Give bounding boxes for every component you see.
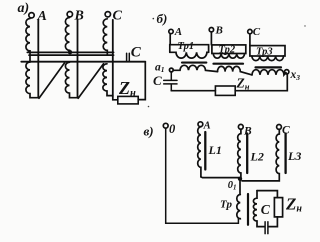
speck right bbox=[304, 25, 305, 26]
zigzag diagonal B to C bbox=[78, 64, 103, 99]
terminal B (part a) bbox=[67, 12, 72, 17]
bus upper 2 bbox=[29, 54, 114, 56]
svg-text:B: B bbox=[215, 25, 223, 37]
svg-text:C: C bbox=[113, 8, 123, 23]
wire Zн to bottom bbox=[269, 217, 278, 227]
wire C bottom to load bbox=[113, 97, 118, 100]
winding C upper coil bbox=[103, 19, 107, 55]
svg-text:0: 0 bbox=[169, 122, 176, 136]
svg-text:C: C bbox=[261, 202, 271, 217]
transformer Tp1 frame bbox=[170, 45, 209, 53]
terminal x3 bbox=[285, 70, 289, 74]
Tp1 core bbox=[182, 62, 206, 64]
zigzag diagonal A to B bbox=[39, 63, 65, 99]
svg-text:C: C bbox=[131, 45, 142, 61]
terminal A (part v) bbox=[198, 122, 203, 127]
svg-text:Zн: Zн bbox=[236, 75, 250, 91]
lead A to Tp1 bbox=[169, 34, 171, 45]
core bar C bbox=[112, 20, 114, 97]
svg-text:C: C bbox=[153, 73, 162, 88]
svg-text:A: A bbox=[203, 120, 211, 131]
bus upper 1 bbox=[27, 51, 113, 53]
svg-text:в): в) bbox=[144, 124, 154, 139]
svg-text:Zн: Zн bbox=[118, 78, 136, 99]
svg-text:C: C bbox=[253, 26, 261, 38]
Tp1 secondary coil bbox=[173, 65, 217, 71]
terminal B (part v) bbox=[238, 124, 243, 129]
winding A lower coil bbox=[26, 62, 38, 98]
node O1 dot bbox=[238, 177, 242, 181]
svg-text:Zн: Zн bbox=[285, 195, 302, 215]
winding B upper coil bbox=[65, 18, 69, 52]
core bar L1 bbox=[204, 132, 206, 170]
svg-text:Тр: Тр bbox=[220, 198, 232, 210]
terminal A (part a) bbox=[29, 13, 34, 18]
winding A upper coil bbox=[26, 19, 30, 63]
Tp3 secondary coil bbox=[252, 70, 286, 75]
Tp3 primary coil bbox=[252, 56, 284, 61]
terminal O bbox=[163, 123, 168, 128]
Tp2 primary coil bbox=[213, 54, 244, 59]
core bar A bbox=[37, 20, 39, 98]
terminal C (part a) bbox=[105, 12, 110, 17]
core bar L2 bbox=[246, 134, 248, 174]
transformer Tp3 frame bbox=[250, 46, 285, 56]
bottom bus (part b) left bbox=[171, 90, 215, 92]
bus lower bbox=[21, 61, 145, 63]
svg-text:х3: х3 bbox=[290, 69, 301, 82]
winding C lower coil bbox=[103, 64, 113, 96]
terminal C (part b) bbox=[248, 29, 252, 33]
lead C to Tp3 bbox=[249, 34, 251, 46]
transformer Tp secondary coil bbox=[253, 191, 264, 227]
svg-text:L3: L3 bbox=[287, 149, 301, 163]
Tp2 core bbox=[214, 63, 244, 65]
Tp3 core bbox=[256, 66, 282, 68]
svg-text:а): а) bbox=[18, 1, 30, 16]
capacitor C (part a) plate 1 bbox=[126, 53, 128, 61]
terminal a1 bbox=[169, 68, 173, 72]
svg-text:A: A bbox=[174, 26, 182, 38]
lead B to Tp2 bbox=[210, 32, 212, 45]
svg-text:L2: L2 bbox=[250, 149, 264, 163]
junction dot B bbox=[68, 50, 72, 54]
svg-text:Тр1: Тр1 bbox=[178, 41, 195, 52]
wire right side (part a) bbox=[138, 62, 145, 100]
wire O long bbox=[166, 128, 241, 223]
speck bbox=[153, 18, 155, 20]
wire O1 to Tp bbox=[239, 180, 241, 195]
transformer Tp primary coil bbox=[237, 195, 241, 219]
svg-text:б): б) bbox=[157, 11, 168, 26]
svg-text:Тр3: Тр3 bbox=[256, 46, 273, 57]
terminal C (part v) bbox=[277, 125, 282, 130]
loop top wire bbox=[257, 191, 277, 198]
svg-text:B: B bbox=[74, 8, 84, 23]
Tp1 primary coil bbox=[170, 52, 209, 58]
Tp2 secondary coil bbox=[218, 66, 253, 75]
wire L1 to O1 bbox=[201, 176, 240, 179]
capacitor C (part v) plate 2 bbox=[267, 222, 269, 234]
load box Zн (part b) bbox=[215, 86, 235, 95]
svg-text:01: 01 bbox=[228, 180, 237, 192]
core bar L3 bbox=[284, 134, 286, 174]
capacitor C (part b) bbox=[164, 72, 177, 91]
capacitor C (part a) plate 2 bbox=[128, 53, 130, 61]
core bar B bbox=[77, 20, 79, 98]
inductor L3 coil bbox=[276, 129, 279, 173]
bottom bus (part b) right bbox=[235, 74, 287, 91]
load box Zн (part v) bbox=[274, 198, 282, 217]
terminal A (part b) bbox=[169, 29, 173, 33]
transformer Tp core bar bbox=[247, 194, 249, 225]
terminal B (part b) bbox=[209, 28, 213, 32]
capacitor C (part v) plate 1 bbox=[264, 222, 266, 234]
inductor L2 coil bbox=[238, 129, 241, 178]
speck bottom bbox=[148, 106, 150, 108]
transformer Tp2 frame bbox=[212, 45, 246, 54]
inductor L1 coil bbox=[198, 127, 201, 177]
svg-text:L1: L1 bbox=[208, 143, 222, 157]
wire L3 return bbox=[242, 174, 279, 181]
load box Zн (part a) bbox=[118, 96, 138, 104]
winding B lower coil bbox=[65, 62, 77, 97]
